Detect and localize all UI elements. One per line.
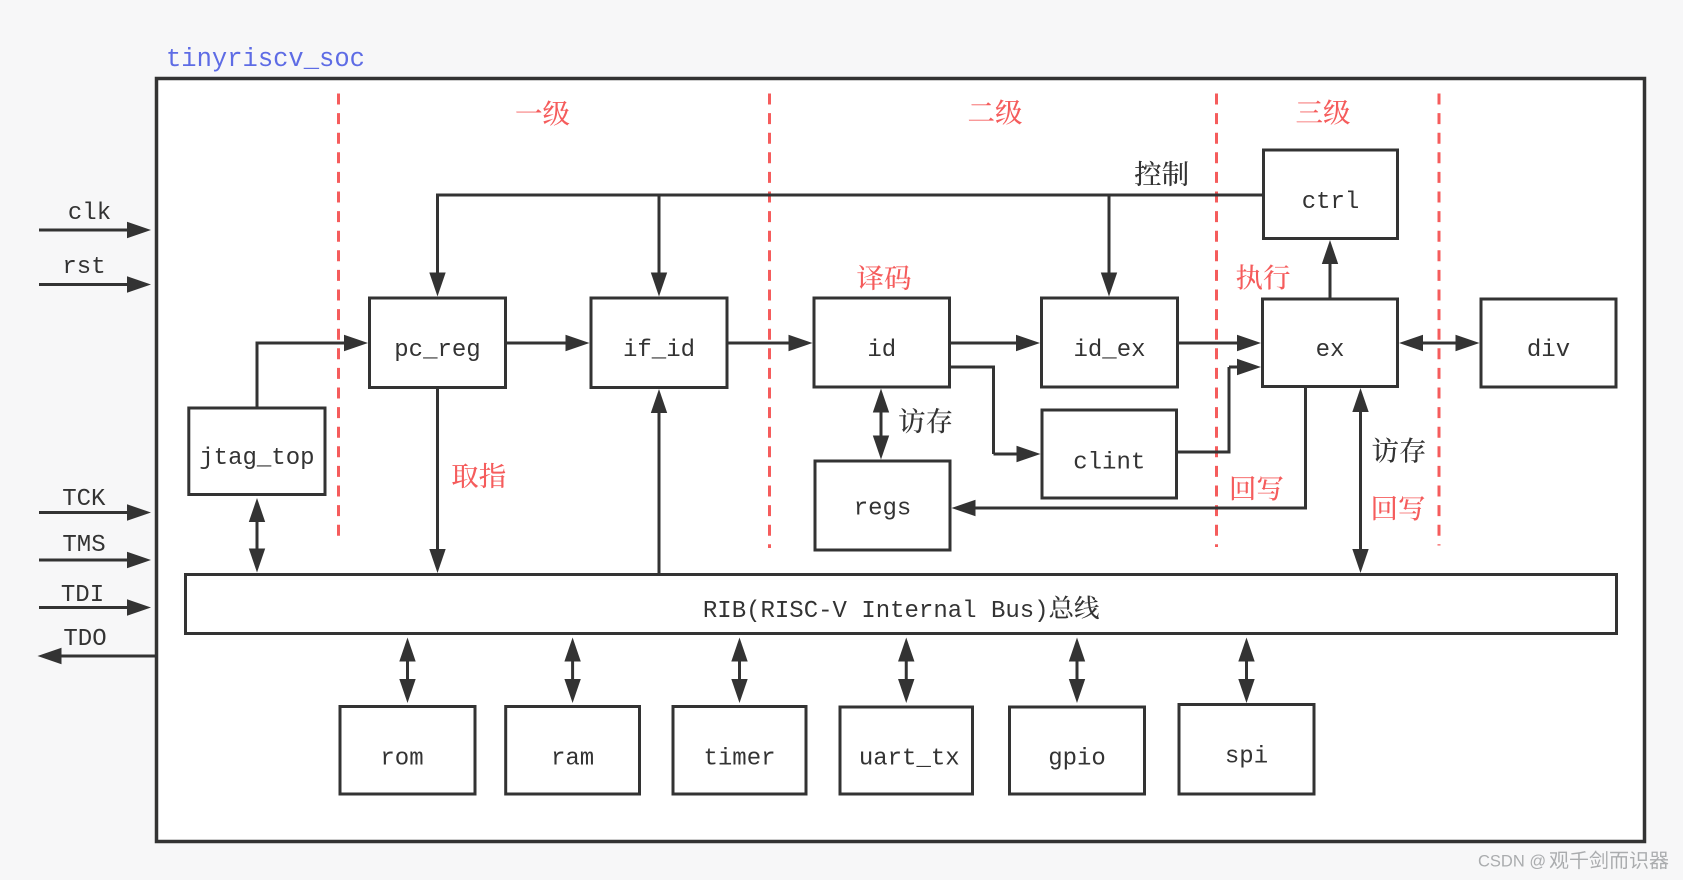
svg-text:pc_reg: pc_reg bbox=[394, 337, 480, 364]
stage dashed line 2 bbox=[768, 94, 771, 549]
svg-text:jtag_top: jtag_top bbox=[199, 445, 314, 472]
svg-text:tinyriscv_soc: tinyriscv_soc bbox=[166, 45, 365, 74]
wire bus<->ram bbox=[564, 638, 580, 704]
block regs bbox=[815, 461, 950, 550]
wire bus<->uart_tx bbox=[898, 638, 914, 704]
svg-text:id: id bbox=[867, 337, 896, 364]
wire bus->if_id bbox=[651, 389, 667, 573]
wire id_ex->ex bbox=[1178, 335, 1262, 351]
block uart_tx bbox=[840, 707, 973, 794]
output pin TDO bbox=[38, 626, 156, 664]
svg-text:gpio: gpio bbox=[1048, 745, 1106, 772]
svg-text:timer: timer bbox=[703, 745, 775, 772]
stage dashed line 1 bbox=[337, 94, 340, 537]
wire id->id_ex bbox=[950, 335, 1041, 351]
wire jtag_top->pc_reg bbox=[256, 335, 369, 408]
svg-text:TCK: TCK bbox=[62, 486, 106, 513]
label 执行 (execute) bbox=[1237, 264, 1290, 289]
input pin rst bbox=[39, 254, 151, 293]
wire id->clint bbox=[950, 366, 1041, 463]
svg-text:regs: regs bbox=[854, 496, 912, 523]
svg-text:RIB(RISC-V Internal Bus): RIB(RISC-V Internal Bus) bbox=[703, 598, 1049, 625]
block clint bbox=[1042, 410, 1177, 498]
label 回写 (writeback) left bbox=[1232, 476, 1283, 501]
wire pc_reg->if_id bbox=[506, 335, 590, 351]
label 回写 (writeback) right bbox=[1373, 496, 1424, 521]
svg-text:CSDN @: CSDN @ bbox=[1478, 853, 1546, 871]
wire id<->regs bbox=[873, 389, 889, 460]
wire bus<->timer bbox=[731, 638, 747, 704]
block if_id bbox=[591, 298, 727, 388]
watermark 观千剑而识器 bbox=[1550, 851, 1669, 870]
watermark CSDN bbox=[1478, 853, 1546, 871]
block div bbox=[1481, 299, 1616, 387]
svg-text:if_id: if_id bbox=[623, 337, 695, 364]
svg-text:TDI: TDI bbox=[61, 582, 104, 609]
block jtag_top bbox=[189, 408, 325, 495]
svg-text:TMS: TMS bbox=[62, 532, 105, 559]
svg-text:spi: spi bbox=[1225, 744, 1268, 771]
block timer bbox=[673, 707, 806, 795]
label 访存 (mem access) near id bbox=[899, 408, 951, 433]
block gpio bbox=[1010, 707, 1145, 794]
block id_ex bbox=[1042, 298, 1178, 387]
wire bus<->rom bbox=[399, 638, 415, 704]
svg-text:TDO: TDO bbox=[63, 626, 106, 653]
wire ctrl control bus bbox=[429, 194, 1263, 297]
label 取指 (fetch) bbox=[452, 463, 505, 488]
svg-text:ex: ex bbox=[1316, 337, 1345, 364]
label 一级 (stage 1) bbox=[516, 100, 569, 125]
wire bus<->spi bbox=[1238, 638, 1254, 704]
stage dashed line 4 bbox=[1438, 94, 1441, 546]
wire bus<->gpio bbox=[1069, 638, 1085, 704]
svg-text:rom: rom bbox=[380, 745, 423, 772]
block spi bbox=[1179, 705, 1314, 795]
block ram bbox=[506, 707, 640, 795]
block id bbox=[814, 298, 950, 387]
svg-text:rst: rst bbox=[62, 254, 105, 281]
label 译码 (decode) bbox=[857, 265, 910, 290]
block rom bbox=[340, 707, 475, 795]
svg-text:id_ex: id_ex bbox=[1073, 337, 1145, 364]
label 三级 (stage 3) bbox=[1297, 99, 1350, 124]
wire pc_reg->bus (fetch) bbox=[429, 389, 445, 573]
svg-text:clint: clint bbox=[1073, 450, 1145, 477]
block RIB bus bbox=[186, 575, 1617, 634]
wire ex->ctrl bbox=[1322, 240, 1338, 299]
stage dashed line 3 bbox=[1215, 94, 1218, 548]
block pc_reg bbox=[370, 298, 506, 388]
label 二级 (stage 2) bbox=[969, 99, 1022, 124]
input pin TCK bbox=[39, 486, 151, 521]
block ctrl bbox=[1264, 150, 1398, 239]
svg-text:ram: ram bbox=[551, 745, 594, 772]
label 控制 (control) bbox=[1135, 161, 1188, 186]
wire jtag_top<->bus bbox=[249, 498, 265, 573]
wire if_id->id bbox=[727, 335, 813, 351]
input pin TMS bbox=[39, 532, 151, 568]
label 访存 (mem access) near ex bbox=[1373, 437, 1425, 462]
input pin TDI bbox=[39, 582, 151, 616]
wire ex->regs (writeback) bbox=[952, 388, 1308, 516]
svg-text:clk: clk bbox=[68, 200, 111, 227]
wire clint->ex bbox=[1177, 359, 1262, 454]
label 总线 (bus) bbox=[1050, 595, 1099, 619]
wire ex<->bus bbox=[1352, 388, 1368, 573]
svg-text:ctrl: ctrl bbox=[1302, 189, 1360, 216]
soc outer frame bbox=[157, 79, 1645, 842]
block ex bbox=[1263, 299, 1398, 387]
wire ex<->div bbox=[1399, 335, 1480, 351]
input pin clk bbox=[39, 200, 151, 238]
svg-text:uart_tx: uart_tx bbox=[859, 745, 960, 772]
svg-text:div: div bbox=[1527, 337, 1570, 364]
